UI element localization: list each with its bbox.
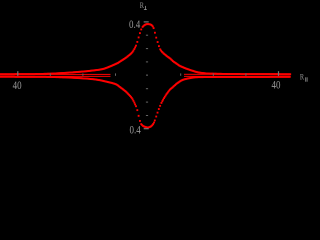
svg-text:40: 40 — [13, 80, 22, 92]
svg-text:0.4: 0.4 — [129, 19, 140, 31]
y-axis major tick +0.4 — [144, 21, 149, 22]
chart: resonance curves R-perp / R-parallel — [0, 0, 313, 139]
near-axis upper trace right — [184, 74, 291, 75]
near-axis lower trace right — [184, 76, 291, 77]
svg-text:0.4: 0.4 — [130, 125, 141, 137]
x-axis major tick +40 — [278, 71, 279, 76]
origin mark — [146, 74, 148, 76]
curve R-perp (upper peak), dotted red — [0, 23, 291, 75]
curve R-parallel (lower dip), dotted red — [0, 76, 291, 129]
y-axis minor ticks — [146, 35, 148, 116]
svg-text:R: R — [300, 72, 304, 82]
near-axis upper trace left — [0, 74, 111, 75]
near-axis lower trace left — [0, 76, 111, 77]
svg-text:40: 40 — [272, 80, 281, 92]
x-axis minor ticks — [50, 73, 247, 75]
label R-parallel (x-axis label) — [300, 72, 308, 82]
label R-perp (y-axis label) — [140, 0, 147, 10]
x-axis major tick -40 — [17, 71, 18, 76]
svg-text:R: R — [140, 0, 144, 10]
y-axis major tick -0.4 — [144, 128, 149, 129]
